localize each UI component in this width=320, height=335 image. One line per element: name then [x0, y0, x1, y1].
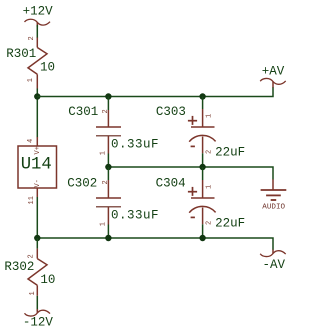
wire U14 to bottom rail	[36, 197, 38, 238]
svg-text:-AV: -AV	[262, 258, 285, 272]
svg-text:10: 10	[40, 273, 55, 287]
svg-text:+12V: +12V	[23, 5, 54, 19]
svg-text:-12V: -12V	[23, 316, 54, 330]
junction dot C301 top	[105, 93, 111, 99]
svg-text:2: 2	[28, 36, 36, 40]
capacitor C304 (polarized)	[188, 167, 216, 238]
ground AUDIO	[261, 179, 287, 200]
svg-text:V-: V-	[34, 179, 42, 187]
wire +12V to R301	[36, 25, 38, 38]
svg-text:1: 1	[27, 78, 35, 82]
capacitor C302	[96, 167, 121, 238]
svg-text:C303: C303	[156, 105, 186, 119]
capacitor C301	[96, 97, 121, 168]
svg-text:AUDIO: AUDIO	[262, 204, 285, 212]
capacitor C303 (polarized)	[188, 97, 216, 168]
svg-text:22uF: 22uF	[215, 145, 245, 159]
svg-text:10: 10	[40, 60, 55, 74]
svg-text:1: 1	[100, 151, 108, 155]
svg-text:C304: C304	[156, 176, 186, 190]
svg-text:V+: V+	[34, 146, 42, 154]
svg-text:11: 11	[28, 196, 36, 204]
svg-text:2: 2	[102, 180, 110, 184]
svg-text:1: 1	[206, 114, 214, 118]
junction dot C303/C304	[199, 164, 205, 170]
svg-text:2: 2	[28, 254, 36, 258]
svg-text:C301: C301	[68, 105, 98, 119]
chip power box U14	[18, 137, 57, 205]
wire R302 to -12V	[36, 296, 38, 311]
svg-text:22uF: 22uF	[215, 216, 245, 230]
svg-text:2: 2	[206, 221, 214, 225]
svg-text:1: 1	[206, 185, 214, 189]
junction dot node +12V rail	[34, 93, 40, 99]
junction dot C303 top	[199, 93, 205, 99]
power symbol +12V	[25, 19, 51, 27]
svg-text:C302: C302	[67, 176, 97, 190]
junction dot node -12V rail	[34, 235, 40, 241]
svg-text:2: 2	[206, 150, 214, 154]
resistor R302	[28, 238, 48, 296]
svg-text:4: 4	[27, 139, 35, 143]
svg-text:1: 1	[29, 291, 37, 295]
power symbol +AV	[260, 78, 286, 87]
svg-text:R301: R301	[6, 47, 36, 61]
junction dot C304 bottom	[199, 235, 205, 241]
svg-text:U14: U14	[21, 155, 52, 174]
junction dot C301/C302	[105, 164, 111, 170]
svg-text:1: 1	[100, 222, 108, 226]
svg-text:R302: R302	[4, 260, 34, 274]
svg-text:0.33uF: 0.33uF	[111, 137, 159, 151]
power symbol -12V	[25, 309, 51, 316]
junction dot C302 bottom	[105, 235, 111, 241]
power symbol -AV	[260, 250, 286, 257]
wire R301 to U14	[36, 89, 38, 138]
wire top rail to +AV	[37, 87, 273, 97]
resistor R301	[27, 36, 47, 88]
wire middle rail to ground	[108, 167, 273, 180]
svg-text:2: 2	[102, 109, 110, 113]
svg-text:+AV: +AV	[262, 65, 285, 79]
svg-text:0.33uF: 0.33uF	[111, 208, 159, 222]
wire bottom rail to -AV	[37, 238, 273, 250]
